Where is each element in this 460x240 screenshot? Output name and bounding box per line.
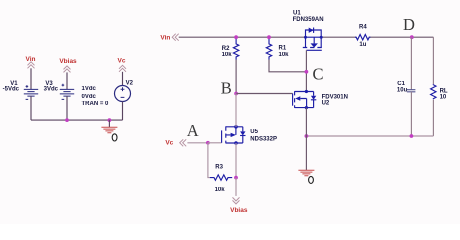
svg-text:R3: R3	[215, 164, 223, 170]
wire R1 to node C	[269, 60, 306, 72]
wire right corner down to RL	[432, 37, 434, 84]
U1 body line on rail	[306, 36, 322, 38]
wire Vc to node A	[187, 142, 208, 144]
junction R1/top rail	[267, 35, 271, 39]
svg-text:1Vdc: 1Vdc	[82, 86, 97, 92]
svg-text:C1: C1	[397, 81, 405, 87]
port Vbias (left block) chevrons	[64, 66, 71, 73]
junction gnd/bus	[108, 118, 112, 122]
svg-text:Vbias: Vbias	[230, 207, 248, 214]
wire RL to bottom rail	[432, 100, 434, 137]
wire V2 to bus	[122, 102, 124, 121]
ground 0 (left block)	[101, 127, 117, 132]
svg-text:U2: U2	[322, 101, 330, 107]
transistor U2 FDV301N	[293, 90, 317, 109]
wire U1 gate to node C	[305, 50, 307, 91]
U1 gate bar	[307, 49, 322, 51]
port Vc (right) chevrons	[180, 139, 187, 146]
wire D to C1	[410, 37, 412, 89]
svg-text:Vc: Vc	[165, 140, 173, 147]
svg-text:Vbias: Vbias	[59, 58, 77, 65]
wire bottom rail	[306, 135, 433, 137]
U1 drain/source stubs	[306, 37, 322, 47]
wire R3 junction to Vbias port	[235, 178, 237, 196]
U1 pin dots	[304, 36, 307, 39]
svg-text:1u: 1u	[359, 42, 366, 48]
wire top rail: R4 to right corner	[369, 36, 434, 38]
svg-text:FDN359AN: FDN359AN	[293, 17, 324, 23]
transistor U5 NDS332P	[222, 125, 246, 145]
junction node D	[410, 35, 414, 39]
U2 gate bar	[292, 94, 294, 106]
U1 channel (dashed)	[303, 47, 322, 49]
junction node C	[305, 70, 309, 74]
wire Vc to V2	[122, 72, 124, 86]
svg-text:TRAN = 0: TRAN = 0	[82, 101, 110, 107]
U5 source bar (top)	[226, 126, 243, 128]
svg-text:10k: 10k	[222, 52, 233, 58]
U5 body arrow (pmos, points away)	[226, 127, 236, 135]
junction R3/U5 drain	[234, 176, 238, 180]
svg-text:10k: 10k	[215, 187, 226, 193]
wire Vin to V1 +	[30, 68, 32, 89]
U2 pin dots	[305, 90, 308, 93]
resistor R1	[266, 37, 271, 59]
port Vbias (bottom) chevrons	[233, 197, 240, 204]
svg-text:R1: R1	[279, 45, 287, 51]
svg-text:U1: U1	[293, 11, 301, 17]
U1 body-diode loop	[306, 30, 322, 37]
wire node B to U5 source	[235, 94, 237, 127]
svg-text:V2: V2	[126, 81, 134, 87]
wire top rail: Vin to U1 drain	[179, 36, 306, 38]
wire node B to U2 gate	[236, 93, 293, 95]
junction R2/top rail	[234, 35, 238, 39]
junction node B	[234, 92, 238, 96]
junction C1/bottom rail	[410, 134, 414, 138]
wire node A to U5 gate	[208, 142, 222, 144]
svg-text:10u: 10u	[397, 87, 408, 93]
svg-text:3Vdc: 3Vdc	[44, 87, 59, 93]
svg-text:-5Vdc: -5Vdc	[3, 87, 20, 93]
resistor R2	[233, 37, 238, 59]
U1 body diode	[309, 28, 314, 33]
port Vin (left block) chevrons	[28, 62, 35, 69]
port Vc (left block) chevrons	[119, 65, 126, 72]
wire U5 drain down to R3 junction	[235, 143, 237, 178]
battery V1	[24, 85, 38, 99]
wire Vbias to V3 +	[66, 72, 68, 89]
U5 channel (dashed)	[225, 126, 227, 143]
U5 body diode	[242, 127, 244, 143]
wire node A down to R3	[208, 143, 210, 178]
resistor R4	[355, 35, 370, 40]
resistor R3	[210, 175, 232, 180]
svg-text:Vin: Vin	[160, 34, 170, 41]
svg-text:NDS332P: NDS332P	[250, 137, 277, 143]
junction U2 source/bottom rail	[305, 134, 309, 138]
svg-text:R2: R2	[222, 46, 230, 52]
U2 source bar	[295, 107, 314, 109]
svg-text:B: B	[221, 79, 232, 98]
wire top rail: U1 source to R4	[321, 36, 356, 38]
wire C1 to bottom rail	[410, 92, 412, 136]
capacitor C1	[407, 90, 416, 92]
svg-text:Vc: Vc	[118, 58, 126, 65]
ground label 0 (right)	[309, 176, 314, 183]
svg-text:10k: 10k	[279, 52, 290, 58]
svg-text:U5: U5	[250, 129, 258, 135]
junction node A	[206, 141, 210, 145]
ground label 0 (left block)	[112, 134, 117, 141]
U2 drain bar	[295, 91, 314, 93]
wire R2 to node B	[235, 60, 237, 94]
U2 body arrow (nmos, points to channel)	[295, 96, 300, 100]
U2 body diode	[313, 92, 315, 108]
svg-text:10: 10	[440, 94, 447, 100]
op U1 FDN359AN mosfet	[303, 28, 323, 51]
wire bottom bus (left block)	[31, 119, 123, 121]
resistor RL	[431, 84, 436, 99]
svg-text:C: C	[312, 65, 323, 84]
ground 0 (right)	[298, 170, 314, 175]
battery V3	[60, 84, 74, 100]
svg-text:D: D	[403, 15, 415, 34]
svg-text:0Vdc: 0Vdc	[82, 94, 97, 100]
svg-text:R4: R4	[359, 24, 367, 30]
wire bus to ground	[108, 120, 110, 127]
port Vin (top rail) chevrons	[172, 34, 179, 41]
svg-text:A: A	[187, 121, 199, 140]
junction V3/bus	[65, 118, 69, 122]
source V2 circle	[115, 86, 131, 102]
svg-text:FDV301N: FDV301N	[322, 94, 348, 100]
wire V3 - to bus	[66, 96, 68, 120]
U5 drain bar (bottom)	[226, 142, 243, 144]
U2 channel (dashed)	[294, 91, 296, 108]
U5 pin dots	[234, 125, 238, 129]
U1 body arrow	[313, 37, 315, 43]
wire V1 - to bus	[30, 96, 32, 120]
U5 gate bar	[221, 130, 223, 142]
wire U2 source to ground	[305, 108, 307, 170]
